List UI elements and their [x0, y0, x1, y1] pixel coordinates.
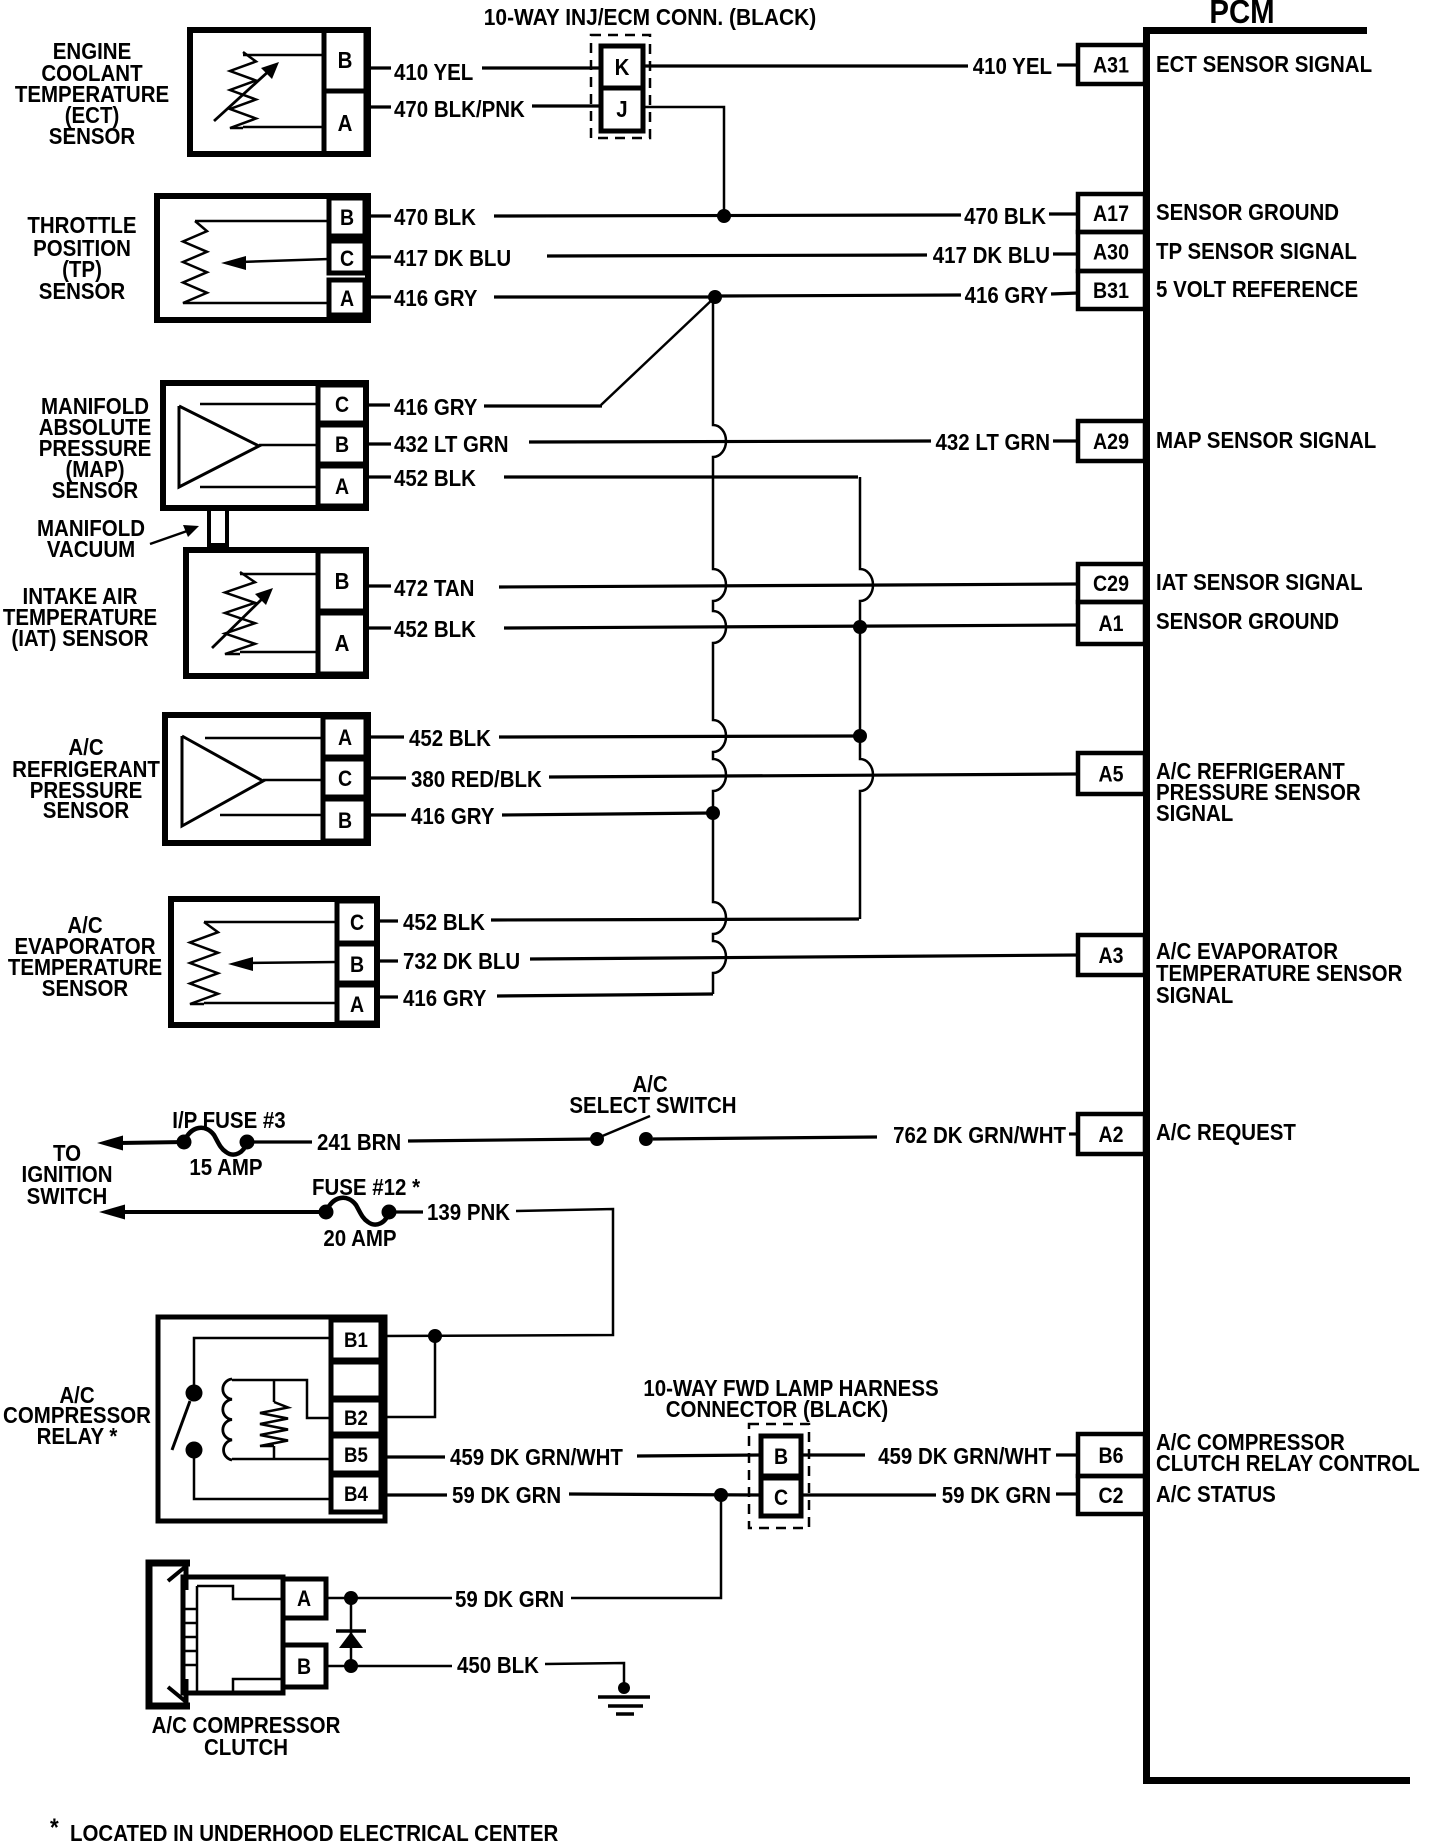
wire 416 GRY from TP pin A to PCM B31 — [366, 295, 391, 298]
arrow to ignition switch (241 BRN feed) — [97, 1136, 123, 1151]
svg-text:A3: A3 — [1099, 943, 1124, 968]
MAP pin C — [318, 385, 366, 423]
ECT pin B — [324, 30, 366, 91]
svg-text:B2: B2 — [344, 1407, 368, 1430]
wire 416 GRY from MAP pin C up to 5V reference junction — [366, 403, 390, 406]
svg-text:416 GRY: 416 GRY — [411, 803, 494, 829]
svg-text:IAT SENSOR SIGNAL: IAT SENSOR SIGNAL — [1156, 569, 1363, 595]
svg-text:A29: A29 — [1093, 429, 1129, 454]
fuse FUSE #12 20 AMP — [326, 1198, 389, 1225]
MAP pin A — [318, 466, 366, 506]
PCM pin C29 — [1078, 564, 1145, 602]
svg-text:A: A — [338, 110, 353, 136]
refrigerant sensor pin B — [323, 799, 366, 841]
svg-text:459 DK GRN/WHT: 459 DK GRN/WHT — [878, 1443, 1051, 1469]
svg-text:470 BLK/PNK: 470 BLK/PNK — [394, 96, 525, 122]
svg-text:416 GRY: 416 GRY — [394, 394, 477, 420]
svg-text:20 AMP: 20 AMP — [323, 1225, 396, 1251]
svg-text:10-WAY INJ/ECM CONN. (BLACK): 10-WAY INJ/ECM CONN. (BLACK) — [484, 4, 816, 30]
svg-text:SENSOR: SENSOR — [52, 477, 139, 503]
MAP sensor body — [163, 383, 366, 508]
svg-text:SENSOR: SENSOR — [43, 797, 130, 823]
svg-text:C: C — [774, 1485, 788, 1510]
svg-text:59 DK GRN: 59 DK GRN — [455, 1586, 564, 1612]
svg-text:A2: A2 — [1099, 1122, 1124, 1147]
svg-text:452 BLK: 452 BLK — [409, 725, 491, 751]
IAT thermistor element — [225, 572, 255, 654]
junction on 470 BLK sensor ground line — [717, 209, 731, 223]
vertical 452 BLK sensor ground bus with crossover hops — [860, 477, 873, 919]
relay internal wire lower contact to B4 — [194, 1456, 331, 1499]
connector pin K — [601, 46, 643, 88]
wire 410 YEL from ECT pin B to connector pin K — [366, 66, 391, 69]
svg-text:A: A — [350, 992, 364, 1017]
svg-text:B: B — [335, 568, 350, 594]
svg-text:SENSOR: SENSOR — [42, 975, 129, 1001]
arrow to ignition switch (139 PNK feed) — [99, 1205, 125, 1220]
svg-text:241 BRN: 241 BRN — [317, 1129, 401, 1155]
A/C compressor clutch housing cap — [149, 1563, 190, 1706]
manifold vacuum arrow — [150, 530, 190, 544]
TP pin C — [329, 241, 365, 273]
svg-text:C29: C29 — [1093, 571, 1129, 596]
svg-text:MAP SENSOR SIGNAL: MAP SENSOR SIGNAL — [1156, 427, 1376, 453]
svg-text:ECT SENSOR SIGNAL: ECT SENSOR SIGNAL — [1156, 51, 1372, 77]
svg-text:B1: B1 — [344, 1329, 368, 1352]
wire 762 DK GRN/WHT from switch to PCM A2 — [653, 1137, 877, 1139]
svg-text:B: B — [338, 808, 352, 833]
wire 452 BLK from MAP pin A to sensor-ground bus — [366, 475, 391, 478]
svg-text:B: B — [297, 1654, 311, 1679]
svg-text:410 YEL: 410 YEL — [394, 59, 473, 85]
evaporator pin A — [337, 985, 377, 1023]
ECT pin A — [324, 91, 366, 154]
PCM module outline (open right side) — [1147, 27, 1411, 1781]
relay pin B1 — [331, 1320, 381, 1360]
relay internal wire coil bottom to B5 — [232, 1458, 331, 1461]
PCM pin C2 — [1078, 1476, 1145, 1514]
relay pin B2 — [331, 1400, 381, 1434]
PCM pin A2 — [1078, 1114, 1145, 1154]
wire 459 DK GRN/WHT from relay B5 to connector pin B — [381, 1455, 445, 1458]
evaporator thermistor element — [190, 922, 218, 1004]
svg-text:CLUTCH RELAY CONTROL: CLUTCH RELAY CONTROL — [1156, 1450, 1420, 1476]
svg-text:410 YEL: 410 YEL — [973, 53, 1052, 79]
PCM pin A29 — [1078, 421, 1145, 461]
relay switch blade — [172, 1401, 190, 1450]
evaporator pin B — [337, 944, 377, 983]
wire 450 BLK from clutch pin B to ground — [326, 1665, 347, 1668]
relay pin B5 — [331, 1436, 381, 1473]
PCM pin B31 — [1078, 271, 1145, 309]
wire 410 YEL from connector pin K to PCM A31 — [643, 64, 968, 67]
svg-text:C: C — [335, 392, 349, 417]
svg-text:SENSOR: SENSOR — [39, 278, 126, 304]
svg-text:5 VOLT REFERENCE: 5 VOLT REFERENCE — [1156, 276, 1358, 302]
A/C select switch contacts and blade — [590, 1132, 604, 1146]
PCM pin A17 — [1078, 194, 1145, 232]
evaporator pin C — [337, 901, 377, 943]
relay switch lower contact — [186, 1442, 203, 1459]
TP potentiometer element — [183, 221, 207, 303]
svg-text:A: A — [338, 725, 352, 750]
relay internal wire B1 to switch contact — [194, 1338, 331, 1388]
PCM pin A5 — [1078, 753, 1145, 794]
svg-text:SIGNAL: SIGNAL — [1156, 982, 1233, 1008]
svg-text:472 TAN: 472 TAN — [394, 575, 474, 601]
junction clutch pin A / diode anode-cathode node — [344, 1591, 358, 1605]
svg-text:A: A — [335, 630, 350, 656]
clutch pin A — [283, 1579, 326, 1618]
svg-text:59 DK GRN: 59 DK GRN — [452, 1482, 561, 1508]
svg-text:C: C — [340, 246, 354, 271]
clutch connector inner outline — [197, 1586, 281, 1692]
wire 459 DK GRN/WHT from connector pin B to PCM B6 — [801, 1453, 865, 1456]
A/C compressor clutch body — [183, 1577, 283, 1693]
junction 416 GRY to refrigerant sensor pin B — [706, 806, 720, 820]
fwd lamp harness connector dashed outline — [749, 1424, 809, 1528]
svg-text:417 DK BLU: 417 DK BLU — [933, 242, 1050, 268]
svg-text:(IAT) SENSOR: (IAT) SENSOR — [11, 625, 149, 651]
svg-text:B: B — [774, 1444, 788, 1469]
svg-text:A17: A17 — [1093, 201, 1129, 226]
svg-text:*: * — [50, 1814, 59, 1842]
svg-text:416 GRY: 416 GRY — [965, 282, 1048, 308]
wire 452 BLK from evaporator pin C to 452 bus — [377, 919, 398, 922]
ECT thermistor element — [230, 52, 256, 128]
svg-text:J: J — [616, 96, 627, 122]
wire 470 BLK/PNK from ECT pin A to connector pin J — [366, 105, 391, 108]
fwd lamp connector pin C — [761, 1478, 801, 1516]
A/C compressor relay body — [158, 1317, 385, 1521]
IAT pin B — [318, 551, 366, 611]
refrigerant sensor amplifier triangle — [182, 736, 263, 826]
svg-text:CONNECTOR (BLACK): CONNECTOR (BLACK) — [666, 1396, 889, 1422]
PCM pin B6 — [1078, 1434, 1145, 1476]
IAT sensor body — [186, 550, 366, 676]
svg-text:139 PNK: 139 PNK — [427, 1199, 510, 1225]
relay switch upper contact — [186, 1385, 203, 1402]
wire 432 LT GRN from MAP pin B to PCM A29 — [366, 442, 391, 445]
svg-text:A5: A5 — [1099, 762, 1124, 787]
relay internal resistor in parallel with coil — [273, 1380, 276, 1402]
wire 241 BRN from fuse to A/C select switch — [247, 1140, 312, 1143]
svg-text:432 LT GRN: 432 LT GRN — [936, 429, 1051, 455]
PCM pin A31 — [1078, 45, 1145, 84]
clamping diode across clutch coil — [350, 1598, 353, 1666]
A/C evaporator temperature sensor body — [171, 899, 377, 1025]
clutch pin B — [283, 1645, 326, 1687]
svg-text:C2: C2 — [1099, 1483, 1124, 1508]
wire 139 PNK from fuse to relay B1 — [389, 1210, 423, 1213]
svg-text:B5: B5 — [344, 1444, 368, 1467]
PCM pin A30 — [1078, 232, 1145, 271]
svg-text:15 AMP: 15 AMP — [189, 1154, 262, 1180]
svg-text:SWITCH: SWITCH — [27, 1183, 108, 1209]
svg-text:A: A — [297, 1586, 311, 1611]
wire 472 TAN from IAT pin B to PCM C29 — [366, 584, 391, 587]
junction clutch pin B node — [344, 1659, 358, 1673]
ECT thermistor arrow — [214, 70, 270, 121]
wire 452 BLK from refrigerant sensor pin A to bus — [366, 735, 404, 738]
junction 59 DK GRN at connector pin C — [714, 1488, 728, 1502]
10-way INJ/ECM connector dashed outline — [591, 35, 650, 138]
relay empty pin slot — [331, 1362, 381, 1398]
PCM pin A1 — [1078, 602, 1145, 644]
svg-text:TP SENSOR SIGNAL: TP SENSOR SIGNAL — [1156, 238, 1357, 264]
A/C refrigerant pressure sensor body — [165, 715, 368, 843]
wire 59 DK GRN from relay B4 to connector pin C — [381, 1493, 447, 1496]
svg-text:C: C — [350, 910, 364, 935]
fuse I/P FUSE #3 15 AMP — [184, 1128, 247, 1155]
svg-text:59 DK GRN: 59 DK GRN — [942, 1482, 1051, 1508]
svg-text:380 RED/BLK: 380 RED/BLK — [411, 766, 542, 792]
svg-text:416 GRY: 416 GRY — [403, 985, 486, 1011]
svg-text:FUSE #12 *: FUSE #12 * — [312, 1174, 420, 1200]
svg-text:PCM: PCM — [1209, 0, 1274, 30]
svg-text:K: K — [615, 54, 630, 80]
wire tie from B1 junction down to relay B2 — [381, 1336, 435, 1417]
refrigerant sensor pin A — [323, 717, 366, 757]
connector pin J — [601, 88, 643, 131]
vertical 416 GRY bus wire with crossover hops — [713, 297, 726, 994]
junction 452 BLK bus at refrigerant sensor ground — [853, 729, 867, 743]
svg-text:B31: B31 — [1093, 278, 1129, 303]
MAP amplifier triangle — [179, 406, 259, 487]
fwd lamp connector pin B — [761, 1436, 801, 1476]
svg-text:SIGNAL: SIGNAL — [1156, 800, 1233, 826]
svg-text:470 BLK: 470 BLK — [964, 203, 1046, 229]
junction 452 BLK bus at IAT ground wire — [853, 620, 867, 634]
wire 416 GRY from evaporator pin A to 416 bus bottom — [377, 995, 398, 998]
svg-text:B: B — [338, 47, 353, 73]
wire 452 BLK from IAT pin A to PCM A1 — [366, 626, 391, 629]
relay coil — [223, 1379, 232, 1460]
svg-text:416 GRY: 416 GRY — [394, 285, 477, 311]
svg-text:SENSOR GROUND: SENSOR GROUND — [1156, 608, 1339, 634]
wire 470 BLK from TP pin B to PCM A17 — [366, 214, 391, 217]
svg-text:B4: B4 — [344, 1483, 368, 1506]
svg-text:SENSOR GROUND: SENSOR GROUND — [1156, 199, 1339, 225]
relay pin B4 — [331, 1475, 381, 1512]
svg-text:B: B — [350, 952, 364, 977]
PCM pin A3 — [1078, 935, 1145, 975]
refrigerant sensor pin C — [323, 759, 366, 797]
ground symbol — [618, 1682, 630, 1694]
svg-text:459 DK GRN/WHT: 459 DK GRN/WHT — [450, 1444, 623, 1470]
wire 59 DK GRN from connector pin C to PCM C2 — [801, 1493, 936, 1496]
svg-text:432 LT GRN: 432 LT GRN — [394, 431, 509, 457]
evaporator wiper arrow — [248, 962, 337, 963]
MAP pin B — [318, 425, 366, 464]
svg-text:732 DK BLU: 732 DK BLU — [403, 948, 520, 974]
relay internal wire coil top to B2 — [232, 1380, 331, 1418]
manifold vacuum port — [209, 509, 227, 545]
TP pin B — [329, 198, 365, 236]
svg-text:A: A — [335, 474, 349, 499]
wire 416 GRY from refrigerant sensor pin B to 416 bus — [366, 813, 406, 816]
diagonal wire segment to 416 GRY junction — [601, 298, 714, 405]
svg-text:452 BLK: 452 BLK — [394, 616, 476, 642]
svg-text:452 BLK: 452 BLK — [394, 465, 476, 491]
TP wiper arrow — [240, 259, 329, 262]
svg-text:SELECT SWITCH: SELECT SWITCH — [569, 1092, 736, 1118]
IAT thermistor arrow — [212, 597, 264, 648]
svg-text:C: C — [338, 766, 352, 791]
svg-text:RELAY *: RELAY * — [37, 1423, 118, 1449]
svg-text:452 BLK: 452 BLK — [403, 909, 485, 935]
svg-text:B6: B6 — [1099, 1443, 1124, 1468]
TP sensor body — [157, 196, 368, 320]
svg-text:I/P FUSE #3: I/P FUSE #3 — [172, 1107, 285, 1133]
junction 139 PNK at relay B1/B2 tie — [428, 1329, 442, 1343]
svg-text:A/C STATUS: A/C STATUS — [1156, 1481, 1276, 1507]
TP pin A — [329, 280, 365, 315]
wire 380 RED/BLK from refrigerant sensor pin C to PCM A5 — [366, 776, 406, 779]
wire 59 DK GRN drop to compressor clutch — [571, 1495, 721, 1598]
svg-text:LOCATED IN UNDERHOOD ELECTRICA: LOCATED IN UNDERHOOD ELECTRICAL CENTER — [70, 1820, 559, 1846]
svg-text:B: B — [340, 205, 354, 230]
svg-text:417 DK BLU: 417 DK BLU — [394, 245, 511, 271]
ECT sensor body — [190, 30, 368, 154]
svg-text:SENSOR: SENSOR — [49, 123, 136, 149]
wire 417 DK BLU from TP pin C to PCM A30 — [366, 255, 391, 258]
svg-text:VACUUM: VACUUM — [47, 536, 135, 562]
svg-text:762 DK GRN/WHT: 762 DK GRN/WHT — [893, 1122, 1066, 1148]
clutch connector teeth — [185, 1608, 197, 1611]
wire 732 DK BLU from evaporator pin B to PCM A3 — [377, 959, 398, 962]
svg-text:A: A — [340, 286, 354, 311]
svg-text:A/C REQUEST: A/C REQUEST — [1156, 1119, 1296, 1145]
svg-text:A30: A30 — [1093, 240, 1129, 265]
wire from connector pin J down to sensor ground junction — [643, 107, 724, 216]
svg-text:B: B — [335, 432, 349, 457]
svg-text:A31: A31 — [1093, 53, 1129, 78]
svg-text:A1: A1 — [1099, 611, 1124, 636]
IAT pin A — [318, 613, 366, 674]
wire 59 DK GRN at clutch pin A — [326, 1597, 347, 1600]
svg-text:CLUTCH: CLUTCH — [204, 1734, 288, 1760]
junction node 416 GRY 5V reference — [708, 290, 722, 304]
svg-text:450 BLK: 450 BLK — [457, 1652, 539, 1678]
svg-text:470 BLK: 470 BLK — [394, 204, 476, 230]
